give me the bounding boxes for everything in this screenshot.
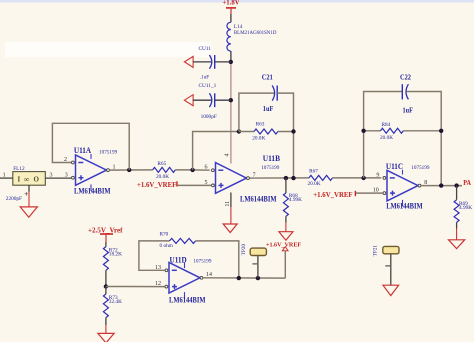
wire VREF flag to output (284, 251, 286, 278)
test point TP21 (372, 245, 399, 257)
svg-text:U11C: U11C (386, 162, 403, 171)
svg-text:I: I (18, 176, 21, 184)
wire gnd to CU11 (193, 61, 211, 63)
op-amp U11B (212, 154, 281, 204)
wire U11B output (249, 177, 309, 179)
FL12 pin2 wire down (28, 185, 30, 191)
wire C21 right edge (277, 93, 293, 178)
svg-text:.1uF: .1uF (200, 74, 210, 80)
svg-text:CU11_1: CU11_1 (199, 83, 217, 89)
filter FL12 (13, 166, 46, 185)
svg-text:12: 12 (155, 281, 161, 287)
op-amp U11D (165, 255, 212, 304)
wire R73 to gnd (105, 325, 107, 334)
svg-text:R84: R84 (382, 122, 391, 128)
svg-text:20.0K: 20.0K (308, 181, 321, 187)
svg-text:TP21: TP21 (372, 245, 378, 257)
svg-text:6: 6 (205, 165, 208, 171)
junction out/C21 loop (291, 176, 295, 180)
net +1.6V_VREF (U11B pin5) (137, 181, 177, 189)
wire U11D output (203, 277, 285, 279)
junction R84 left (361, 129, 365, 133)
junction out/R70 (237, 276, 241, 280)
svg-text:C21: C21 (262, 72, 273, 81)
wire VREF to pin5 (178, 184, 212, 186)
ground (R69) (449, 240, 465, 249)
resistor R69 (454, 186, 472, 229)
ground (R68) (279, 232, 293, 241)
junction R65/loop (190, 168, 194, 172)
svg-text:20.0K: 20.0K (380, 135, 393, 141)
svg-text:R70: R70 (160, 231, 169, 237)
svg-text:LM6144BIM: LM6144BIM (169, 296, 206, 305)
svg-text:1075199: 1075199 (99, 149, 118, 155)
power +2.5V_Vref (88, 227, 123, 242)
ground (CU11) (184, 56, 193, 67)
TP21 pin1 label (385, 265, 390, 267)
resistor R70 (160, 231, 196, 248)
junction R84 right (439, 129, 443, 133)
svg-text:U11B: U11B (263, 154, 281, 163)
wire C22 right edge (406, 92, 441, 186)
junction out/R69 (454, 183, 458, 187)
svg-text:20.0K: 20.0K (156, 174, 169, 180)
junction U11A out (127, 168, 131, 172)
ground (FL12) (20, 207, 37, 217)
svg-text:∞: ∞ (24, 175, 30, 184)
junction R72/R73 (104, 284, 108, 288)
wire C21 left edge (239, 93, 274, 131)
wire +1.8V rail down to U11B pin4 (230, 62, 232, 164)
wire R70 to output (196, 241, 239, 278)
resistor R84 (364, 122, 442, 141)
TP21 pin wire (390, 254, 392, 285)
junction R63 right (291, 129, 295, 133)
svg-text:20.0K: 20.0K (252, 136, 265, 142)
wire CU11_1 to rail (215, 99, 231, 101)
svg-text:BLM21AG601SN1D: BLM21AG601SN1D (234, 30, 277, 36)
junction node at L14/CU11 (229, 60, 233, 64)
capacitor C22 (400, 72, 413, 114)
op-amp U11C (383, 162, 430, 211)
wire R69 to gnd (456, 229, 458, 240)
svg-text:3: 3 (50, 172, 53, 178)
wire U11B pin11 to gnd (230, 193, 232, 208)
svg-text:+1.8V: +1.8V (222, 0, 239, 7)
svg-text:+1.6V_VREF: +1.6V_VREF (313, 192, 352, 199)
op-amp U11A (72, 146, 118, 196)
wire gnd to CU11_1 (193, 99, 211, 101)
svg-text:R63: R63 (256, 121, 265, 127)
resistor R68 (283, 178, 302, 223)
resistor R65 (153, 161, 176, 180)
wire U11C output (421, 185, 462, 187)
capacitor CU11 (199, 46, 215, 80)
svg-text:PA: PA (463, 179, 471, 187)
svg-text:1uF: 1uF (403, 105, 414, 114)
svg-text:1: 1 (3, 172, 6, 178)
capacitor CU11_1 (199, 83, 217, 120)
junction out/C22 (439, 183, 443, 187)
TP20 pin1 label (252, 263, 257, 265)
wire up to C21 loop (193, 132, 239, 170)
wire VREF to pin10 (356, 192, 383, 194)
capacitor C21 (262, 72, 277, 113)
svg-text:+1.6V_VREF: +1.6V_VREF (137, 182, 176, 189)
power +1.8V (222, 0, 239, 14)
svg-text:18.2K: 18.2K (109, 252, 122, 258)
junction node at CU11_1 (229, 98, 233, 102)
svg-text:R65: R65 (157, 161, 166, 167)
resistor R72 (103, 242, 122, 287)
resistor R63 (239, 121, 294, 141)
svg-text:U11A: U11A (74, 146, 91, 155)
svg-text:1075199: 1075199 (261, 165, 280, 171)
wire R68 to gnd (285, 223, 287, 232)
text anchor mark (25, 192, 29, 196)
svg-text:0 ohm: 0 ohm (160, 243, 174, 249)
wire inductor to node (230, 51, 232, 62)
junction C22 loop left (361, 176, 365, 180)
svg-text:4.99K: 4.99K (289, 197, 302, 203)
wire C22 left edge (364, 92, 403, 178)
ground (U11B pin11) (223, 224, 237, 233)
junction C21 left (237, 129, 241, 133)
background highlight patch (5, 42, 211, 57)
svg-text:1075199: 1075199 (411, 165, 430, 171)
svg-text:TP20: TP20 (241, 244, 247, 256)
svg-text:LM6144BIM: LM6144BIM (74, 186, 111, 195)
svg-text:1075199: 1075199 (193, 259, 212, 265)
svg-text:CU11: CU11 (199, 46, 212, 52)
svg-text:3: 3 (65, 172, 68, 178)
junction out/TP20 (256, 276, 260, 280)
resistor R73 (103, 287, 122, 326)
window top edge strip (0, 0, 474, 3)
wire feedback loop U11A (52, 123, 129, 170)
wire power to inductor (230, 14, 232, 22)
test point TP20 (241, 244, 266, 256)
svg-text:9: 9 (376, 172, 379, 178)
svg-text:C22: C22 (400, 72, 411, 81)
wire R67 to pin9 (333, 177, 382, 179)
svg-text:32.4K: 32.4K (109, 299, 122, 305)
wire divider to pin12 (106, 286, 165, 288)
resistor R67 (308, 168, 333, 187)
net +1.6V_VREF (U11C pin10) (313, 191, 355, 199)
wire FL12 pin3 to U11A pin3 (45, 177, 71, 179)
svg-text:U11D: U11D (170, 255, 187, 264)
junction out/R68 (284, 176, 288, 180)
ground (TP21) (383, 285, 399, 295)
input wire to FL12 pin1 (0, 177, 13, 179)
svg-text:4.99K: 4.99K (459, 205, 472, 211)
svg-text:+1.6V_VREF: +1.6V_VREF (266, 241, 301, 248)
svg-text:4: 4 (224, 154, 230, 157)
svg-text:FL12: FL12 (13, 166, 25, 172)
wire U11A output (109, 169, 152, 171)
svg-text:LM6144BIM: LM6144BIM (240, 194, 277, 203)
net +1.6V_VREF (U11D out) (266, 241, 301, 251)
svg-text:LM6144BIM: LM6144BIM (386, 202, 423, 211)
svg-text:1000pF: 1000pF (201, 114, 217, 120)
svg-text:1uF: 1uF (263, 104, 274, 113)
ground (R73) (98, 333, 114, 342)
wire CU11 to rail (215, 61, 231, 63)
inductor L14 (227, 22, 277, 51)
wire R65 to pin6 (175, 169, 210, 171)
TP20 pin wire (257, 256, 259, 278)
wire pin13 feedback loop (139, 241, 170, 270)
svg-text:O: O (34, 176, 40, 184)
ground (CU11_1) (184, 95, 193, 106)
svg-text:R67: R67 (309, 168, 318, 174)
svg-text:2200pF: 2200pF (6, 196, 22, 202)
